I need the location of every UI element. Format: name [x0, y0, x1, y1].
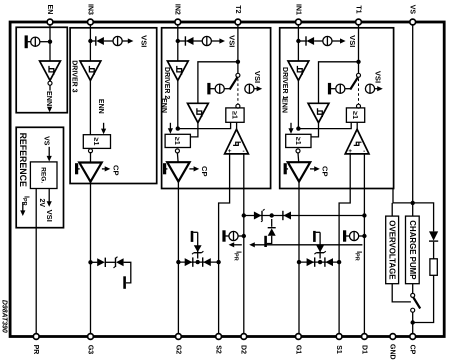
node D2 clamp junction	[242, 213, 246, 217]
svg-text:≥1: ≥1	[351, 111, 360, 119]
wire IN3 to pull-up diode	[90, 40, 96, 42]
diode G1 clamp left	[307, 258, 315, 266]
comparator load monitor (driver1)	[345, 129, 369, 155]
inverter bubble ENN	[48, 81, 52, 85]
svg-text:PR: PR	[32, 345, 39, 355]
svg-text:ENN: ENN	[160, 98, 167, 113]
wire OR input comparator (driver2)	[236, 122, 238, 130]
node S2 clamp junction	[216, 260, 220, 264]
svg-text:VSI: VSI	[348, 35, 357, 47]
wire trigger T1 to OR gate	[311, 122, 319, 136]
zener stack (D-clamp)	[264, 219, 275, 247]
wire trigger output (driver2)	[177, 80, 179, 129]
wire VS to overvoltage	[391, 203, 393, 216]
DRIVER 1 block box	[280, 28, 394, 189]
pin IN1 (top)	[294, 4, 301, 25]
supply plate timer source (driver1)	[328, 83, 335, 95]
zener diode G3 clamp right	[116, 258, 124, 266]
output buffer driver3 (gate driver)	[79, 163, 101, 182]
arrow ENN output	[47, 107, 52, 113]
pin CP (bottom)	[409, 334, 416, 355]
wire trigger3 output to OR gate	[89, 80, 91, 135]
svg-text:≥1: ≥1	[294, 137, 303, 145]
current source IN3 pull (VSI)	[113, 36, 122, 45]
schmitt trigger IN1	[288, 61, 309, 80]
DRIVER 2 block box	[162, 28, 271, 189]
pin S2 (bottom)	[215, 334, 222, 354]
switch contact top (CP)	[411, 293, 415, 297]
wire G2-S2 clamp	[178, 261, 218, 263]
svg-text:G3: G3	[86, 345, 93, 354]
OR gate main (driver2)	[165, 134, 190, 147]
current source VSI pull (T1 node)	[365, 84, 374, 93]
wire charge pump to switch	[412, 284, 414, 294]
supply plate timer source (driver2)	[207, 83, 214, 95]
svg-text:≥1: ≥1	[230, 111, 239, 119]
schmitt trigger T1	[308, 103, 329, 122]
switch control bubble (driver1)	[357, 104, 361, 108]
wire G1-S1 clamp	[299, 261, 339, 263]
node G2 clamp junction	[176, 260, 180, 264]
output buffer driver1 (gate driver)	[288, 162, 310, 181]
current source to EN (supply plate)	[25, 35, 31, 48]
current source IN2 pull (VSI)	[202, 36, 211, 45]
node T2 junction	[236, 60, 240, 64]
pin T1 (top)	[354, 5, 361, 25]
transistor plate terminal (G3 clamp)	[123, 276, 126, 289]
svg-text:DRIVER 2: DRIVER 2	[163, 67, 170, 99]
wire D1 drain line	[363, 154, 365, 335]
arrow IPR (driver2)	[229, 242, 242, 247]
wire S1 sense line with jog	[339, 154, 350, 335]
svg-text:CP: CP	[112, 165, 121, 176]
svg-text:2V: 2V	[38, 199, 45, 208]
node D-clamp mid	[270, 213, 274, 217]
switch control bubble (driver2)	[236, 104, 240, 108]
inverter bubble (driver2 OR output)	[175, 149, 179, 153]
node IN3 pull junction	[88, 39, 92, 43]
wire IPR source to D1	[359, 235, 365, 237]
wire diode to source (IN1)	[314, 40, 323, 42]
pin D2 (bottom)	[240, 334, 247, 354]
wire resistor to diode	[433, 242, 435, 259]
current source timer (driver1)	[336, 84, 345, 93]
svg-text:VSI: VSI	[140, 35, 149, 47]
svg-text:GND: GND	[389, 344, 396, 360]
switch contact bottom (CP)	[411, 308, 415, 312]
arrow to VSI rail (driver1)	[332, 38, 346, 43]
diode G3 clamp left	[97, 258, 105, 266]
zener clamp stack (G1)	[313, 231, 326, 259]
diode G2 clamp right	[203, 258, 211, 266]
node trigger/OR junction (driver2)	[176, 126, 180, 130]
node CP junction	[411, 320, 415, 324]
REFERENCE block box	[16, 127, 63, 227]
wire switch to CP pin	[412, 312, 414, 334]
wire T2 to trigger 2 (driver2)	[198, 62, 238, 104]
wire S2 sense line with jog	[219, 154, 230, 335]
arrow to VSI rail (driver3)	[122, 38, 133, 43]
node IN2 pull junction	[176, 39, 180, 43]
CHARGE PUMP block box	[406, 216, 420, 284]
node EN pull junction	[48, 40, 52, 44]
svg-text:CP: CP	[200, 166, 209, 177]
node S1 clamp junction	[337, 260, 341, 264]
svg-text:T1: T1	[354, 5, 361, 13]
svg-text:G1: G1	[294, 345, 301, 354]
node VS branch junction	[411, 201, 415, 205]
node D2 IPR junction	[242, 234, 246, 238]
wire source to switch (driver2)	[224, 88, 229, 90]
wire G1 gate line	[298, 181, 300, 334]
pin EN (top)	[46, 5, 53, 25]
current source VSI pull (T2 node)	[245, 84, 254, 93]
svg-text:VSI: VSI	[227, 35, 236, 47]
diode G2 clamp left	[185, 258, 193, 266]
pin D1 (bottom)	[360, 334, 367, 354]
arrow ENN into OR gate (driver1)	[288, 123, 293, 134]
wire trigger to ENN label	[49, 85, 51, 90]
DRIVER 3 block box	[70, 28, 157, 184]
svg-text:ENN: ENN	[97, 99, 104, 114]
current source IPR (driver2)	[229, 231, 238, 240]
svg-text:D1: D1	[360, 345, 367, 354]
wire diode to source	[104, 40, 113, 42]
OVERVOLTAGE block box	[386, 216, 399, 284]
wire diode to source (IN2)	[194, 40, 203, 42]
wire current source to EN node	[40, 41, 50, 43]
svg-text:DRIVER 1: DRIVER 1	[281, 67, 288, 99]
current source IPR (driver1)	[350, 231, 359, 240]
arrow IPR	[20, 202, 25, 216]
pin PR (bottom)	[32, 334, 39, 355]
node D1 IPR junction	[362, 234, 366, 238]
svg-text:IN2: IN2	[174, 4, 181, 15]
wire trigger T2 to OR gate	[190, 122, 198, 136]
dashed control line (driver1 switch)	[358, 79, 360, 105]
diode boot (VS to CP)	[429, 231, 438, 240]
wire timer OR output (driver2)	[178, 122, 231, 128]
svg-text:CP: CP	[321, 166, 330, 177]
svg-text:VSI: VSI	[253, 71, 262, 83]
pin G1 (bottom)	[294, 334, 301, 355]
OR gate main (driver1)	[286, 134, 311, 147]
supply plate of driver3 buffer	[75, 163, 80, 174]
node trigger/OR junction (driver1)	[296, 126, 300, 130]
svg-text:D98AT390: D98AT390	[1, 300, 8, 333]
wire OR input comparator (driver1)	[356, 122, 358, 130]
wire IN1 to pull-up diode	[298, 40, 307, 42]
svg-text:T2: T2	[234, 5, 241, 13]
node clamp mid (G1)	[318, 260, 322, 264]
svg-text:DRIVER 3: DRIVER 3	[71, 60, 78, 92]
regulator box REG	[30, 162, 57, 189]
svg-text:S1: S1	[335, 345, 342, 354]
wire VS to boot diode	[413, 203, 434, 232]
pin T2 (top)	[234, 5, 241, 25]
current source IN1 pull (VSI)	[323, 36, 332, 45]
svg-text:IN3: IN3	[86, 4, 93, 15]
arrow CP supply (driver1)	[310, 166, 320, 171]
wire OR to output buffer (driver1)	[297, 153, 300, 164]
schmitt trigger IN3	[80, 61, 101, 80]
wire VS vertical	[412, 25, 414, 217]
wire IN2 to pull-up diode	[178, 40, 187, 42]
wire EN vertical	[49, 25, 51, 63]
svg-text:CP: CP	[409, 345, 416, 355]
arrow ENN into OR gate (driver2)	[168, 123, 173, 134]
wire IN3 vertical	[89, 25, 91, 63]
svg-text:VS: VS	[409, 5, 416, 15]
pin GND (bottom)	[389, 334, 396, 360]
svg-text:REG.: REG.	[39, 167, 46, 183]
supply plate of driver1 buffer	[284, 163, 288, 174]
wire IN1 vertical	[297, 25, 299, 63]
schmitt trigger IN2	[167, 61, 188, 80]
switch contact top (driver1)	[357, 73, 361, 77]
wire G3 gate line	[90, 181, 92, 334]
svg-text:IN1: IN1	[294, 4, 301, 15]
diode IN1 pull-up	[307, 37, 315, 45]
switch lever (driver2)	[230, 77, 238, 89]
wire overvoltage to switch control	[392, 284, 411, 302]
OR gate timer (driver2)	[226, 108, 244, 122]
wire T2 vertical	[237, 25, 239, 76]
wire G3 to clamp diode	[91, 261, 98, 263]
pin S1 (bottom)	[335, 334, 342, 354]
svg-text:CHARGE PUMP: CHARGE PUMP	[408, 220, 417, 279]
svg-text:REFERENCE: REFERENCE	[18, 133, 28, 187]
supply plate IPR source (driver2)	[222, 230, 229, 241]
arrow 2V regulator output to VSI	[47, 189, 52, 207]
wire trigger output (driver1)	[297, 80, 299, 129]
wire IPR source to D2	[238, 235, 244, 237]
diode IN3 pull-up	[96, 37, 104, 45]
arrow to VSI (T2 pull)	[254, 86, 262, 91]
arrow CP supply (driver2)	[189, 166, 199, 171]
wire D2 drain line	[243, 154, 245, 335]
zener diode D-clamp left	[254, 209, 265, 222]
pin G2 (bottom)	[174, 334, 181, 355]
supply plate IPR source (driver1)	[343, 230, 350, 241]
wire G2 gate line	[177, 181, 179, 334]
switch lever (driver1)	[350, 77, 358, 89]
current source I-EN	[31, 37, 40, 46]
comparator load monitor (driver2)	[225, 129, 249, 155]
wire OR to output buffer (driver2)	[176, 153, 179, 164]
svg-text:≥1: ≥1	[92, 138, 101, 146]
diode IN2 pull-up	[186, 37, 194, 45]
svg-text:≥1: ≥1	[173, 137, 182, 145]
wire zener to plate (G3)	[124, 262, 131, 283]
svg-text:VSI: VSI	[45, 210, 54, 222]
wire D2-D1 clamp line	[244, 215, 365, 217]
inverter bubble (driver3 OR output)	[89, 149, 93, 153]
arrow to VSI (T1 pull)	[375, 86, 383, 91]
arrow ENN into OR gate (driver3)	[101, 123, 106, 134]
wire PR output line	[35, 189, 37, 335]
inverter bubble (driver1 OR output)	[296, 149, 300, 153]
svg-text:VSI: VSI	[374, 71, 383, 83]
node D1 clamp junction	[362, 213, 366, 217]
arrow to VSI rail (driver2)	[211, 38, 225, 43]
arrow CP supply (driver3)	[102, 166, 110, 171]
node IN1 pull junction	[296, 39, 300, 43]
arrow IPR (driver1)	[249, 242, 362, 247]
svg-text:OVERVOLTAGE: OVERVOLTAGE	[388, 220, 397, 279]
svg-text:ENN: ENN	[45, 91, 54, 106]
arrow VS into regulator	[47, 147, 52, 162]
node T1 junction	[356, 60, 360, 64]
node G3 clamp junction	[88, 260, 92, 264]
OR gate timer (driver1)	[346, 108, 364, 122]
output buffer driver2 (gate driver)	[167, 162, 189, 181]
EN enable block box	[16, 27, 67, 112]
wire IN2 vertical	[177, 25, 179, 63]
wire between clamp diodes (G3)	[105, 261, 115, 263]
pin IN2 (top)	[174, 4, 181, 25]
wire source to switch (driver1)	[345, 88, 350, 90]
pin IN3 (top)	[86, 4, 93, 25]
wire OR to output buffer (driver3)	[90, 152, 92, 164]
pin VS (top)	[409, 5, 416, 25]
wire VS to driver1 supply	[393, 189, 413, 203]
pin G3 (bottom)	[86, 334, 93, 355]
schmitt trigger T2	[188, 103, 209, 122]
svg-text:G2: G2	[174, 345, 181, 354]
current source timer (driver2)	[215, 84, 224, 93]
schmitt trigger EN (inverting)	[40, 61, 61, 80]
wire T1 vertical	[358, 25, 360, 76]
wire T1 to trigger 2 (driver1)	[319, 62, 359, 104]
supply plate of driver2 buffer	[163, 163, 167, 174]
svg-text:S2: S2	[215, 345, 222, 354]
OR gate driver3	[83, 135, 110, 149]
resistor boot	[430, 259, 437, 276]
svg-text:D2: D2	[240, 345, 247, 354]
wire timer OR output (driver1)	[298, 122, 351, 128]
svg-text:EN: EN	[46, 5, 53, 15]
dashed control line (driver2 switch)	[237, 79, 239, 105]
node G1 clamp junction	[297, 260, 301, 264]
wire CP to boot resistor	[413, 275, 434, 322]
svg-text:VS: VS	[43, 136, 50, 146]
switch contact top (driver2)	[236, 73, 240, 77]
diode G1 clamp right	[325, 258, 333, 266]
diode D-clamp right	[283, 212, 291, 220]
zener clamp stack (G2)	[191, 231, 204, 259]
node clamp mid (G2)	[196, 260, 200, 264]
svg-text:ENN: ENN	[280, 98, 287, 113]
switch lever (CP)	[413, 298, 420, 309]
